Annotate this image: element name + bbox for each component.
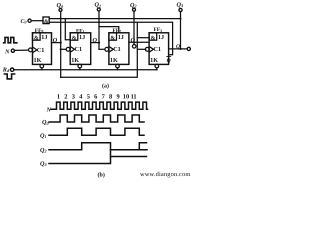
node: dot FF2 Q joint (133, 41, 135, 43)
flip-flop FF2 (105, 33, 129, 68)
node: dot Q0 on L1 (60, 18, 62, 20)
wire: J3 feed from L2 riser (137, 37, 149, 39)
svg-text:2: 2 (64, 93, 67, 100)
wire: Q2 vertical (133, 11, 135, 44)
svg-text:FF2: FF2 (113, 28, 122, 34)
C output terminal (187, 47, 190, 50)
svg-text:N: N (4, 49, 10, 56)
wire: Rd riser FF0 (41, 68, 43, 70)
wire: J2 feed from Q1 (99, 27, 119, 33)
svg-text:Q1: Q1 (95, 2, 102, 9)
svg-text:11: 11 (131, 93, 137, 100)
svg-text:C1: C1 (75, 46, 83, 53)
wire: FF1 clock feed (61, 48, 66, 50)
svg-text:C1: C1 (113, 46, 121, 53)
AND gate G1 (43, 17, 49, 25)
svg-text:&: & (110, 35, 115, 41)
flip-flop FF3 (145, 33, 168, 68)
node: dot FF1 clock joint (60, 48, 62, 50)
node: dot FF1 Q joint (98, 42, 100, 44)
wire: Q1 vertical (98, 11, 100, 49)
svg-text:1: 1 (57, 93, 60, 100)
wire: FF2 clock feed (99, 48, 105, 50)
Rd input terminal (2, 66, 14, 73)
waveform Q3 (49, 157, 147, 164)
waveform N (51, 102, 148, 109)
svg-text:1K: 1K (110, 57, 118, 64)
node: dot FF0 Q joint (60, 42, 62, 44)
svg-text:1K: 1K (71, 57, 79, 64)
svg-text:Q2: Q2 (40, 147, 47, 154)
Q2 output terminal (130, 2, 137, 11)
wire: Rd riser FF2 (117, 68, 119, 70)
N clock pulse symbol (4, 37, 17, 42)
wire: FF3 output to C terminal (169, 48, 188, 50)
svg-text:www.diangon.com: www.diangon.com (140, 171, 190, 178)
wire: Q0 vertical (terminal to bottom run) (60, 11, 62, 77)
svg-text:7: 7 (102, 93, 106, 100)
wire: FF2 Q stub to FF3 J (129, 41, 149, 43)
svg-text:&: & (72, 35, 77, 41)
flip-flop FF1 (66, 33, 91, 68)
wire: Q3 vertical (180, 12, 182, 49)
wire: merged vertical Q2 fall / Q3 rise (scan artifact) (110, 150, 112, 157)
svg-text:Q3: Q3 (40, 160, 47, 167)
svg-text:10: 10 (123, 93, 129, 100)
wire: FF3 clock feed (137, 48, 145, 50)
hop circle below Q2 joint (132, 45, 136, 49)
flip-flop FF0 (29, 33, 52, 68)
svg-text:&: & (44, 19, 49, 25)
svg-text:Q: Q (53, 37, 58, 44)
svg-text:Q: Q (176, 44, 180, 50)
node: dot Q3 on output wire (179, 48, 181, 50)
svg-text:Q3: Q3 (177, 1, 184, 8)
Q3 output terminal (177, 1, 184, 11)
svg-text:4: 4 (79, 93, 83, 100)
svg-text:FF0: FF0 (35, 28, 44, 34)
wire: FF0 Q output stub (52, 42, 61, 44)
svg-text:6: 6 (94, 93, 98, 100)
bus L1 (AND gate upper line to Q3 drop) (49, 18, 180, 20)
svg-text:C1: C1 (37, 47, 45, 54)
svg-text:1J: 1J (41, 34, 47, 41)
svg-text:1K: 1K (34, 57, 42, 64)
svg-text:5: 5 (87, 93, 90, 100)
svg-text:&: & (151, 35, 156, 41)
svg-text:3: 3 (72, 93, 75, 100)
svg-text:C0: C0 (21, 19, 28, 25)
wire: Rd riser FF1 (79, 68, 81, 70)
waveform Q2 (49, 143, 147, 150)
svg-text:8: 8 (109, 93, 112, 100)
svg-text:&: & (34, 35, 39, 41)
svg-text:C1: C1 (153, 46, 161, 53)
wire: J1 feed from L1 (65, 19, 70, 40)
C0 input terminal (28, 19, 43, 22)
timing: clock numbers 1-11 (57, 93, 137, 100)
svg-text:(a): (a) (102, 82, 109, 89)
svg-text:(b): (b) (98, 171, 105, 178)
svg-text:Rd: Rd (2, 66, 10, 73)
svg-text:FF3: FF3 (154, 27, 163, 33)
waveform Q1 (49, 128, 144, 135)
N input terminal (4, 49, 29, 56)
svg-text:Q1: Q1 (40, 132, 47, 139)
node: dot Q1 on L1 (98, 18, 100, 20)
svg-text:FF1: FF1 (76, 28, 85, 34)
svg-text:1J: 1J (118, 34, 124, 41)
node: dot Q2 on L1 (133, 18, 135, 20)
Rd pulse symbol (4, 74, 14, 79)
svg-text:9: 9 (116, 93, 119, 100)
bus L2 (AND gate lower line) (49, 22, 172, 55)
Q0 output terminal (57, 2, 64, 11)
svg-text:1K: 1K (150, 57, 158, 64)
node: dot Q1 on L2 (98, 21, 100, 23)
wire: FF1 Q output stub (91, 42, 99, 44)
wire: bottom run to FF3 clock riser (61, 22, 138, 77)
node: dot Q3 on L1 (180, 18, 182, 20)
svg-text:1J: 1J (79, 34, 85, 41)
waveform Q0 (49, 115, 144, 122)
Q1 output terminal (95, 2, 102, 12)
svg-text:Q: Q (167, 58, 171, 64)
wire: Rd riser FF3 (156, 68, 158, 70)
svg-text:1J: 1J (158, 34, 164, 41)
wire: Rd bus (14, 69, 157, 71)
